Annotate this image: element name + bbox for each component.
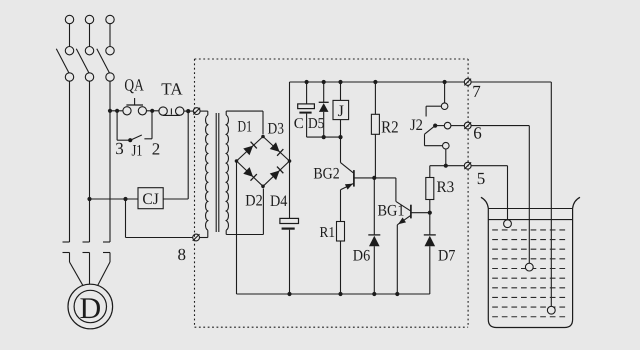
svg-text:7: 7 [472, 82, 481, 101]
svg-text:QA: QA [124, 75, 144, 94]
svg-text:CJ: CJ [142, 191, 158, 208]
svg-text:BG2: BG2 [313, 166, 339, 183]
svg-text:8: 8 [178, 245, 187, 264]
svg-text:R2: R2 [381, 117, 399, 136]
svg-text:J: J [338, 103, 344, 120]
svg-text:D5: D5 [308, 116, 324, 132]
svg-text:6: 6 [473, 124, 482, 143]
svg-text:J1: J1 [132, 142, 143, 159]
svg-text:D: D [79, 292, 101, 325]
svg-text:R1: R1 [320, 225, 336, 241]
svg-text:3: 3 [115, 139, 124, 158]
svg-text:R3: R3 [437, 179, 455, 196]
svg-text:TA: TA [161, 80, 183, 99]
svg-text:C: C [294, 116, 304, 132]
svg-text:2: 2 [152, 140, 161, 159]
svg-text:J2: J2 [410, 117, 423, 134]
svg-text:D7: D7 [438, 247, 455, 264]
svg-text:D2: D2 [245, 192, 262, 209]
svg-text:5: 5 [477, 169, 486, 188]
svg-text:D6: D6 [353, 247, 370, 264]
svg-text:D4: D4 [270, 193, 287, 210]
svg-text:D3: D3 [268, 121, 285, 138]
svg-text:D1: D1 [238, 119, 253, 136]
svg-text:BG1: BG1 [378, 202, 405, 219]
